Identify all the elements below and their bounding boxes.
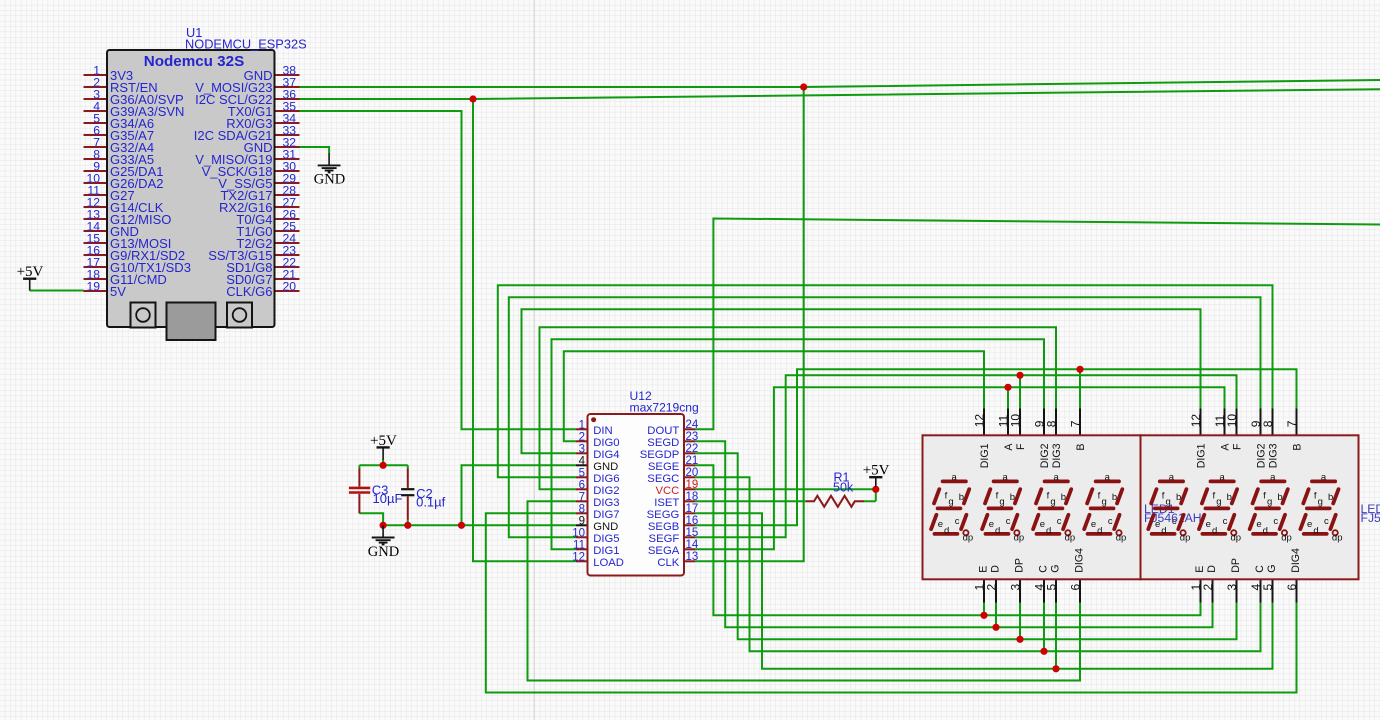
svg-text:B: B: [1292, 444, 1304, 451]
svg-text:19: 19: [86, 280, 100, 294]
svg-text:10: 10: [572, 527, 585, 539]
svg-text:CLK: CLK: [657, 557, 679, 569]
svg-text:2: 2: [1201, 583, 1215, 590]
svg-text:G: G: [1266, 565, 1278, 573]
svg-text:SEGB: SEGB: [648, 521, 679, 533]
svg-text:D: D: [1206, 565, 1218, 573]
svg-text:ISET: ISET: [654, 497, 679, 509]
svg-text:+5V: +5V: [370, 433, 397, 449]
svg-text:SEGDP: SEGDP: [640, 449, 680, 461]
svg-text:18: 18: [686, 491, 699, 503]
svg-text:8: 8: [1045, 420, 1059, 427]
svg-text:12: 12: [572, 551, 585, 563]
svg-text:DIG7: DIG7: [593, 509, 619, 521]
svg-text:9: 9: [579, 515, 585, 527]
svg-text:14: 14: [686, 539, 699, 551]
svg-text:SEGE: SEGE: [648, 461, 680, 473]
svg-text:2: 2: [579, 431, 585, 443]
svg-text:0.1µf: 0.1µf: [416, 494, 446, 509]
svg-text:6: 6: [1068, 583, 1082, 590]
svg-text:GND: GND: [368, 544, 399, 560]
svg-text:10: 10: [1225, 414, 1239, 428]
svg-text:SEGA: SEGA: [648, 545, 680, 557]
svg-text:VCC: VCC: [655, 485, 679, 497]
svg-text:5V: 5V: [110, 284, 126, 299]
svg-text:8: 8: [579, 503, 585, 515]
svg-text:DIG3: DIG3: [1268, 443, 1280, 468]
svg-text:5: 5: [579, 467, 585, 479]
svg-text:DOUT: DOUT: [647, 425, 679, 437]
svg-text:F: F: [1232, 443, 1244, 450]
svg-text:7: 7: [1285, 420, 1299, 427]
svg-text:DIG3: DIG3: [1051, 443, 1063, 468]
svg-text:DIG5: DIG5: [593, 533, 619, 545]
svg-text:SEGF: SEGF: [649, 533, 680, 545]
svg-text:20: 20: [686, 467, 699, 479]
svg-text:12: 12: [973, 414, 987, 428]
svg-text:21: 21: [686, 455, 699, 467]
svg-text:4: 4: [579, 455, 586, 467]
svg-text:22: 22: [686, 443, 699, 455]
svg-text:DIG2: DIG2: [593, 485, 619, 497]
svg-text:E: E: [978, 566, 990, 573]
svg-text:SEGD: SEGD: [647, 437, 679, 449]
svg-text:DIG4: DIG4: [1290, 548, 1302, 573]
svg-text:20: 20: [283, 280, 297, 294]
svg-text:G: G: [1050, 565, 1062, 573]
svg-text:3: 3: [579, 443, 585, 455]
svg-text:10: 10: [1009, 414, 1023, 428]
svg-text:NODEMCU_ESP32S: NODEMCU_ESP32S: [185, 36, 307, 51]
svg-text:DP: DP: [1014, 558, 1026, 573]
svg-text:Nodemcu 32S: Nodemcu 32S: [144, 53, 244, 70]
svg-text:50k: 50k: [833, 481, 854, 495]
svg-text:13: 13: [686, 551, 699, 563]
svg-text:max7219cng: max7219cng: [630, 401, 699, 415]
svg-text:E: E: [1194, 566, 1206, 573]
svg-text:5: 5: [1261, 583, 1275, 590]
svg-text:5: 5: [1044, 583, 1058, 590]
svg-text:+5V: +5V: [863, 463, 890, 479]
svg-text:3: 3: [1225, 583, 1239, 590]
svg-text:SEGC: SEGC: [647, 473, 679, 485]
svg-text:7: 7: [1069, 420, 1083, 427]
svg-text:3: 3: [1008, 583, 1022, 590]
svg-text:LOAD: LOAD: [593, 557, 624, 569]
svg-text:DIG1: DIG1: [1196, 443, 1208, 468]
svg-text:15: 15: [686, 527, 699, 539]
svg-text:6: 6: [579, 479, 585, 491]
svg-text:SEGG: SEGG: [647, 509, 680, 521]
svg-text:C: C: [1038, 565, 1050, 573]
svg-text:DIG4: DIG4: [1074, 548, 1086, 573]
svg-text:A: A: [1003, 443, 1015, 451]
svg-text:16: 16: [686, 515, 699, 527]
svg-text:+5V: +5V: [17, 264, 44, 280]
svg-text:1: 1: [579, 419, 585, 431]
svg-text:GND: GND: [314, 172, 345, 188]
svg-text:DIG0: DIG0: [593, 437, 619, 449]
svg-text:DP: DP: [1230, 558, 1242, 573]
svg-text:GND: GND: [593, 461, 618, 473]
svg-text:12: 12: [1189, 414, 1203, 428]
svg-text:10µF: 10µF: [373, 491, 403, 506]
svg-text:DIG3: DIG3: [593, 497, 619, 509]
svg-text:FJ5461AH: FJ5461AH: [1361, 511, 1380, 525]
svg-text:B: B: [1075, 444, 1087, 451]
svg-text:11: 11: [573, 539, 585, 551]
svg-text:DIG6: DIG6: [593, 473, 619, 485]
svg-text:DIG2: DIG2: [1039, 443, 1051, 468]
svg-text:GND: GND: [593, 521, 618, 533]
svg-text:19: 19: [686, 479, 699, 491]
svg-text:D: D: [990, 565, 1002, 573]
svg-text:C: C: [1254, 565, 1266, 573]
svg-text:DIN: DIN: [593, 425, 612, 437]
svg-text:23: 23: [686, 431, 699, 443]
svg-text:DIG1: DIG1: [979, 443, 991, 468]
svg-text:CLK/G6: CLK/G6: [226, 284, 272, 299]
svg-text:17: 17: [686, 503, 699, 515]
svg-text:24: 24: [686, 419, 699, 431]
svg-text:F: F: [1015, 443, 1027, 450]
svg-text:6: 6: [1285, 583, 1299, 590]
svg-text:DIG2: DIG2: [1256, 443, 1268, 468]
svg-text:A: A: [1220, 443, 1232, 451]
svg-text:2: 2: [984, 583, 998, 590]
svg-text:DIG1: DIG1: [593, 545, 619, 557]
svg-text:DIG4: DIG4: [593, 449, 619, 461]
svg-text:8: 8: [1261, 420, 1275, 427]
svg-text:7: 7: [579, 491, 585, 503]
